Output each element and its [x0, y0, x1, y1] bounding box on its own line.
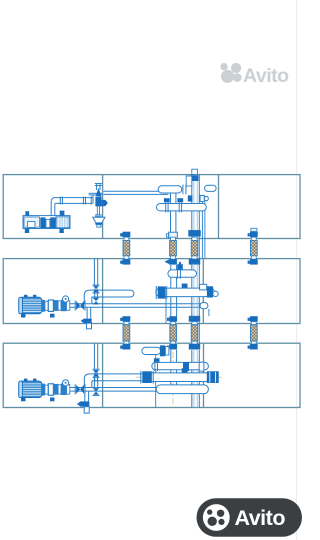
suction pipe row3 [70, 387, 157, 389]
flange ticks above elbow [89, 192, 103, 194]
pipe end flange tick at divider elbow [90, 196, 92, 204]
drain pipe below P3 [84, 391, 86, 401]
manifold top stem above border [192, 169, 198, 174]
gauge circle [63, 296, 69, 302]
capsule pipe stub left of manifold [158, 186, 182, 193]
row3 box [3, 343, 300, 407]
logo dot medium [231, 63, 241, 73]
valve stack V1 at row1 divider [93, 184, 108, 228]
badge pill [197, 498, 303, 536]
row1 box [3, 175, 300, 239]
bolt tee 2 on capsule C [177, 198, 183, 202]
flexible connector x173.2 band2 [167, 316, 177, 349]
motor M2 [19, 297, 42, 313]
logo dot small2 [233, 73, 242, 82]
pipe B walls through band1 [191, 239, 193, 259]
pump P1 riser pipe and elbow to horizontal discharge [51, 198, 92, 216]
gate valve V3a vertical [93, 370, 99, 373]
svg-text:Avito: Avito [243, 65, 289, 87]
elbow arm pipe row2 [84, 290, 134, 304]
connector 254 band1 top stem [251, 228, 257, 231]
connector 196 band1 wide top flange [188, 230, 200, 236]
elbow arm pipe row3 to long line [84, 374, 143, 388]
pipe B walls through band2 [191, 322, 193, 344]
flexible connector x173.0 band1 [164, 232, 177, 264]
row2 box [3, 259, 300, 324]
row3 divider [102, 343, 104, 407]
tan centerline horizontal row3 [136, 376, 222, 378]
flexible connector x126.4 band2 [120, 316, 130, 349]
pipe A segment above capsule C [170, 193, 172, 204]
small fitting left on manifold [188, 195, 193, 201]
big capsule pipe row3 with end valves [143, 373, 217, 382]
white block left of manifold top [186, 176, 192, 186]
row1 second divider [218, 175, 220, 239]
drain funnel under valve stack [93, 217, 105, 223]
flexible connector x253.8 band2 [248, 316, 258, 349]
flexible connector x196.0 band1 [189, 237, 200, 264]
elbow-up walls into valve stack [92, 195, 94, 203]
logo dot small [220, 63, 227, 70]
top capsule stub row3 [142, 347, 161, 354]
thin bypass pipe right of manifold down through band1 [201, 202, 203, 259]
vertical drop from long capsule left valve [165, 299, 167, 324]
manifold pipe B inner lines row1 [194, 181, 197, 239]
faint page seam line right [296, 0, 298, 540]
header rounded end cap [200, 303, 208, 309]
arm flange ticks [94, 289, 96, 299]
pipe flange ticks on P1 discharge [59, 197, 61, 205]
flexible connector x253.8 band1 [248, 232, 258, 265]
badge dot big [208, 517, 217, 526]
gate valve V2b vertical [93, 298, 99, 301]
manifold pipe B walls row1 [192, 175, 200, 239]
manifold pipe B walls row3 [191, 350, 193, 407]
pump head stages [54, 300, 59, 311]
butterfly valve on P2 discharge [76, 301, 80, 310]
feeder line down row3 [155, 354, 157, 407]
pump P1 top bolts [25, 211, 29, 215]
tap valve on pipe A row2 [177, 264, 183, 270]
pump P1 feet [25, 229, 29, 234]
bottom capsule pipe row3 [156, 385, 208, 394]
bolt tee 1 on capsule C [164, 198, 170, 202]
butterfly valve on P3 discharge [76, 385, 80, 394]
arm flange ticks row3 [94, 372, 96, 382]
flexible connector x197.0 band2 [189, 316, 200, 350]
pipe A segment below capsule C [170, 211, 172, 232]
manifold pipe A walls row3 [170, 350, 172, 385]
badge dot small2 [218, 519, 224, 525]
gate valve V3b vertical [93, 388, 99, 391]
badge dot small [207, 509, 212, 514]
tan centerline vertical B [191, 352, 193, 404]
manifold top cap flange [190, 175, 198, 181]
drain pipe below P2 [86, 307, 88, 318]
capsule pipe stub right of manifold [205, 185, 217, 191]
coupling [42, 300, 45, 312]
row3 second divider [203, 343, 205, 407]
vertical pipe at divider row3 [93, 343, 95, 369]
capsule pipe row2 upper [168, 270, 197, 277]
flexible connector x126.4 band1 [120, 232, 130, 265]
row2 divider [102, 259, 104, 324]
svg-text:Avito: Avito [235, 506, 286, 530]
row1 center header pipe [103, 190, 168, 192]
motor feet [21, 314, 26, 318]
badge white circle [203, 504, 230, 531]
pump P2 unit [19, 295, 70, 318]
badge dot medium [217, 510, 224, 517]
vertical pipe at divider row2 [93, 259, 95, 286]
manifold pipe B walls row2 [191, 264, 193, 317]
gate valve V2a vertical [93, 286, 99, 289]
logo dot big [221, 70, 234, 83]
capsule pipe row2 long with valves [156, 288, 215, 297]
tan centerline vertical A [172, 352, 174, 407]
row2 second divider [202, 259, 204, 324]
row1 divider [102, 175, 104, 239]
small fitting right on manifold [200, 195, 204, 201]
long capsule pipe C row1 [157, 204, 207, 211]
middle capsule pipe row3 [152, 362, 209, 369]
pump P1 body [23, 216, 70, 229]
pump P3 unit (copy of P2 shifted +83.8) [19, 379, 70, 402]
suction header pipe row2 [70, 303, 204, 305]
vertical pipe between valves row3 [93, 378, 95, 389]
manifold pipe A walls row2 [170, 265, 172, 316]
